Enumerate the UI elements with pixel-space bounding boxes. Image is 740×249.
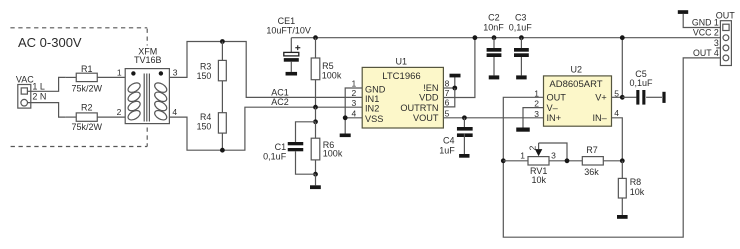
junction VDD rail bbox=[473, 35, 478, 40]
wire rail to R3 bbox=[221, 42, 223, 61]
pin label 2 N bbox=[32, 92, 46, 102]
svg-text:8: 8 bbox=[445, 79, 450, 89]
svg-text:150: 150 bbox=[197, 122, 212, 132]
wire C4 to ground bbox=[463, 133, 465, 154]
svg-text:VCC 2: VCC 2 bbox=[693, 28, 719, 38]
svg-text:C2: C2 bbox=[488, 13, 500, 23]
svg-text:10nF: 10nF bbox=[483, 22, 504, 32]
wire OUT net to RV1 bbox=[503, 160, 528, 162]
wire VAC pin2 to R2 bbox=[28, 103, 66, 118]
resistor R2 bbox=[66, 102, 103, 132]
svg-text:R4: R4 bbox=[200, 112, 211, 122]
junction V+ rail bbox=[620, 35, 625, 40]
wire U2 IN- to R7/R8 junction bbox=[612, 118, 623, 161]
svg-text:0,1uF: 0,1uF bbox=[509, 22, 533, 32]
wire AC2 junction down to C1 tap bbox=[315, 107, 317, 122]
svg-text:U1: U1 bbox=[396, 57, 408, 67]
pin number 4 (U1) bbox=[351, 108, 356, 118]
svg-text:GND 1: GND 1 bbox=[692, 17, 719, 27]
svg-text:1: 1 bbox=[520, 151, 525, 161]
svg-text:4: 4 bbox=[614, 108, 619, 118]
svg-text:AD8605ART: AD8605ART bbox=[549, 79, 602, 90]
svg-text:2: 2 bbox=[351, 88, 356, 98]
pin number 5 (U1) bbox=[445, 108, 450, 118]
svg-text:4: 4 bbox=[351, 108, 356, 118]
wire VOUT to U2 IN+ bbox=[444, 117, 544, 119]
wire VDD to rail bbox=[444, 38, 475, 98]
label AC 0-300V bbox=[18, 35, 82, 50]
svg-text:100k: 100k bbox=[323, 149, 343, 159]
svg-text:36k: 36k bbox=[584, 167, 599, 177]
junction V+ / C5 bbox=[620, 95, 625, 100]
ground (R6/C1) bbox=[310, 185, 321, 189]
junction R6/C1 bottom bbox=[313, 172, 318, 177]
svg-text:AC1: AC1 bbox=[271, 87, 289, 97]
capacitor CE1 bbox=[266, 16, 311, 72]
wire OUT GND pin to ground bbox=[683, 14, 720, 28]
svg-text:IN2: IN2 bbox=[365, 104, 379, 114]
svg-text:R8: R8 bbox=[630, 177, 642, 187]
ground (C4) bbox=[459, 154, 469, 158]
wire C3 to ground bbox=[520, 57, 522, 75]
ground (C3) bbox=[516, 75, 527, 79]
net label AC2 bbox=[271, 97, 289, 107]
pin number 2 (U2) bbox=[534, 99, 539, 109]
pin label 1 L bbox=[32, 81, 45, 91]
wire R1 to transformer pin1 bbox=[97, 76, 125, 78]
wire XFM pin4 to AC2 (node B) bbox=[169, 107, 362, 150]
svg-text:V+: V+ bbox=[595, 93, 607, 103]
pin number 1 (U2) bbox=[534, 88, 539, 98]
junction node B bottom rail bbox=[220, 148, 225, 153]
junction VOUT/C4 bbox=[462, 115, 467, 120]
junction R5/AC2 (IN2 bias) bbox=[313, 105, 318, 110]
resistor R3 bbox=[197, 60, 227, 81]
svg-text:!EN: !EN bbox=[423, 83, 438, 93]
svg-text:2: 2 bbox=[117, 107, 122, 117]
svg-text:R3: R3 bbox=[200, 61, 211, 71]
svg-text:VSS: VSS bbox=[365, 114, 383, 124]
wire U1 GND/VSS tie bbox=[345, 88, 362, 134]
ground (U1 GND/VSS) bbox=[340, 134, 351, 138]
wire R3 to R4 bbox=[221, 81, 223, 113]
capacitor C1 bbox=[263, 142, 303, 162]
pin stub 3 bbox=[714, 38, 721, 48]
wire C1 to bottom junction bbox=[296, 151, 316, 174]
transformer XFM TV16B bbox=[125, 47, 169, 124]
svg-text:0,1uF: 0,1uF bbox=[629, 78, 653, 88]
svg-text:IN–: IN– bbox=[592, 113, 607, 123]
svg-text:3: 3 bbox=[551, 151, 556, 161]
svg-text:1 L: 1 L bbox=[32, 81, 45, 91]
resistor R6 bbox=[311, 138, 343, 160]
capacitor C3 bbox=[509, 13, 533, 57]
wire junction to ground bbox=[315, 174, 317, 185]
ground (!EN) bbox=[450, 74, 461, 78]
connector VAC bbox=[16, 75, 34, 109]
svg-text:1uF: 1uF bbox=[439, 145, 455, 155]
wire U2 OUT feedback/output loop bbox=[503, 58, 720, 237]
svg-text:R1: R1 bbox=[81, 64, 93, 74]
junction wiper/R7 bbox=[565, 158, 570, 163]
svg-text:2: 2 bbox=[527, 145, 537, 150]
op-amp U1 LTC1966 (RMS-DC converter) bbox=[362, 57, 443, 128]
svg-text:OUT 4: OUT 4 bbox=[693, 48, 719, 58]
wire R2 to transformer pin2 bbox=[97, 116, 125, 118]
svg-text:VDD: VDD bbox=[419, 93, 439, 103]
wire R7 to IN- junction bbox=[603, 160, 622, 162]
svg-text:U2: U2 bbox=[571, 65, 583, 75]
svg-text:VOUT: VOUT bbox=[413, 113, 439, 123]
junction node A top rail bbox=[220, 39, 225, 44]
resistor R8 bbox=[618, 177, 644, 198]
junction C1 tap bbox=[313, 119, 318, 124]
svg-text:TV16B: TV16B bbox=[134, 55, 162, 65]
capacitor C2 bbox=[483, 13, 504, 57]
op-amp U2 AD8605ART bbox=[544, 65, 612, 127]
svg-text:100k: 100k bbox=[322, 70, 342, 80]
resistor R7 bbox=[582, 145, 603, 177]
svg-text:R7: R7 bbox=[586, 145, 598, 155]
wire RV1 to R7 bbox=[549, 160, 582, 162]
svg-text:R2: R2 bbox=[81, 102, 93, 112]
svg-text:6: 6 bbox=[445, 98, 450, 108]
net label AC1 bbox=[271, 87, 289, 97]
svg-text:3: 3 bbox=[714, 38, 719, 48]
ground (C5, rotated) bbox=[662, 92, 665, 103]
wire VDD rail bbox=[291, 37, 720, 39]
ground (C2) bbox=[489, 75, 500, 79]
pin number 1 (U1) bbox=[351, 79, 356, 89]
resistor R4 bbox=[197, 112, 227, 133]
svg-text:AC 0-300V: AC 0-300V bbox=[18, 35, 82, 50]
pin number 7 (U1) bbox=[445, 88, 450, 98]
ground (U2 V-) bbox=[516, 128, 530, 132]
svg-text:C4: C4 bbox=[443, 135, 455, 145]
pin number 3 (U2) bbox=[534, 109, 539, 119]
pin number 3 (U1) bbox=[351, 98, 356, 108]
svg-text:3: 3 bbox=[534, 109, 539, 119]
junction R5 rail bbox=[313, 35, 318, 40]
junction !EN bbox=[452, 86, 457, 91]
ground (R8) bbox=[617, 215, 628, 219]
wire !EN to ground bbox=[444, 77, 455, 88]
pin number 8 (U1) bbox=[445, 79, 450, 89]
pin number 4 (XFM) bbox=[172, 107, 177, 117]
svg-text:OUT: OUT bbox=[547, 93, 567, 103]
connector OUT bbox=[716, 11, 736, 66]
svg-text:IN1: IN1 bbox=[365, 94, 379, 104]
svg-text:75k/2W: 75k/2W bbox=[71, 122, 102, 132]
wire junction to R8 bbox=[621, 161, 623, 179]
wire U2 V- to ground bbox=[523, 108, 544, 128]
junction R7/R8/IN- bbox=[620, 158, 625, 163]
wire C2 to ground bbox=[493, 57, 495, 75]
junction VSS bbox=[343, 115, 348, 120]
junction C3 rail bbox=[519, 35, 524, 40]
pin number 1 (XFM) bbox=[117, 67, 122, 77]
svg-text:1: 1 bbox=[117, 67, 122, 77]
potentiometer RV1 bbox=[520, 143, 567, 185]
wire C1 tap to R6 bbox=[315, 122, 317, 138]
capacitor C5 bbox=[622, 69, 662, 105]
pin number 4 (U2) bbox=[614, 108, 619, 118]
resistor R5 bbox=[311, 58, 342, 80]
ground (CE1) bbox=[286, 72, 298, 76]
wire VOUT to C4 bbox=[463, 118, 465, 127]
svg-text:2 N: 2 N bbox=[32, 92, 46, 102]
wire !EN junction to OUTRTN bbox=[444, 88, 455, 107]
wire U2 V+ to rail bbox=[612, 38, 623, 98]
junction RV1 left (OUT net) bbox=[501, 158, 506, 163]
wire R4 to bottom rail bbox=[221, 133, 223, 150]
pin label OUT 4 bbox=[693, 48, 719, 58]
svg-text:LTC1966: LTC1966 bbox=[382, 71, 420, 82]
svg-text:10k: 10k bbox=[630, 187, 645, 197]
ground (OUT connector GND) bbox=[678, 10, 688, 14]
pin label GND 1 bbox=[692, 17, 719, 27]
capacitor C4 bbox=[439, 127, 472, 155]
svg-text:OUTRTN: OUTRTN bbox=[400, 103, 438, 113]
svg-text:10uFT/10V: 10uFT/10V bbox=[266, 25, 311, 35]
resistor R1 bbox=[66, 64, 103, 93]
svg-text:3: 3 bbox=[173, 67, 178, 77]
pin number 3 (XFM) bbox=[173, 67, 178, 77]
wire R6 to bottom junction bbox=[315, 160, 317, 174]
wire R5 to AC2 junction bbox=[315, 80, 317, 108]
pin number 6 (U1) bbox=[445, 98, 450, 108]
svg-text:IN+: IN+ bbox=[547, 113, 562, 123]
wire rail to R5 bbox=[315, 38, 317, 58]
svg-text:AC2: AC2 bbox=[271, 97, 289, 107]
junction C2 rail bbox=[492, 35, 497, 40]
svg-text:5: 5 bbox=[445, 108, 450, 118]
wire XFM pin3 to AC1 (node A) bbox=[169, 42, 362, 98]
svg-text:C3: C3 bbox=[515, 13, 527, 23]
svg-text:0,1uF: 0,1uF bbox=[263, 152, 287, 162]
svg-text:3: 3 bbox=[351, 98, 356, 108]
AC mains section boundary (dashed lines) bbox=[10, 28, 147, 147]
wire R8 to ground bbox=[621, 198, 623, 215]
svg-text:4: 4 bbox=[172, 107, 177, 117]
wire VAC pin1 to R1 bbox=[27, 77, 65, 91]
wire C1 tap branch bbox=[296, 122, 316, 142]
pin number 2 (XFM) bbox=[117, 107, 122, 117]
svg-text:75k/2W: 75k/2W bbox=[71, 84, 102, 94]
svg-text:V–: V– bbox=[547, 103, 559, 113]
svg-text:10k: 10k bbox=[532, 175, 547, 185]
svg-text:150: 150 bbox=[197, 71, 212, 81]
pin number 2 (U1) bbox=[351, 88, 356, 98]
pin label VCC 2 bbox=[693, 28, 719, 38]
pin number 5 (U2) bbox=[614, 88, 619, 98]
